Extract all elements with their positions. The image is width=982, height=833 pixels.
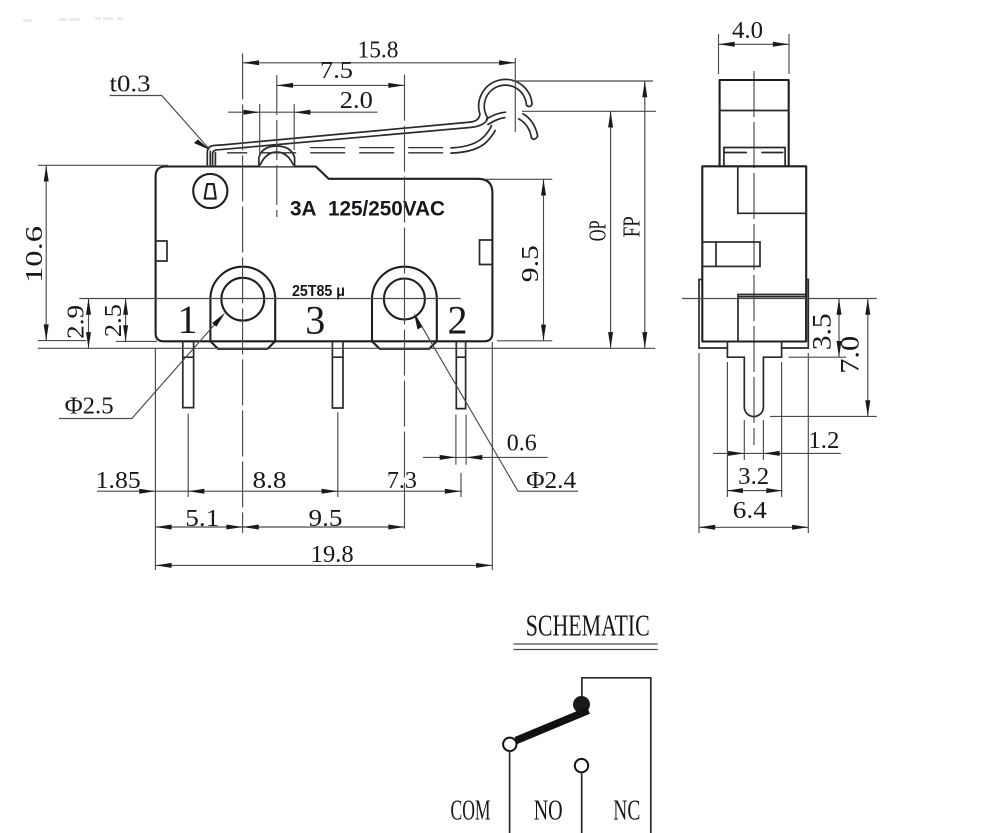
- svg-text:COM: COM: [451, 795, 491, 826]
- side lever inner rect: [724, 148, 785, 167]
- pressed lever S-bend: [451, 126, 492, 148]
- dim 2.9: [63, 299, 91, 349]
- leader t0.3: [110, 72, 211, 151]
- contact dot: [573, 696, 590, 713]
- switch lever: [516, 710, 589, 740]
- OP dim: [522, 111, 656, 348]
- svg-text:8.8: 8.8: [253, 468, 287, 494]
- svg-text:OP: OP: [586, 220, 612, 241]
- svg-text:FP: FP: [620, 216, 646, 237]
- dim 15.8: [243, 38, 516, 66]
- dim row 5.1 / 9.5: [155, 506, 404, 532]
- plunger inner arc: [260, 152, 293, 165]
- svg-text:3.2: 3.2: [738, 464, 769, 490]
- centerline circle1 vertical: [242, 53, 244, 533]
- keyhole trapezoid: [205, 184, 216, 199]
- dim 19.8: [155, 542, 492, 568]
- extension curl tick 15.8 right: [514, 58, 516, 132]
- svg-text:2: 2: [448, 298, 468, 343]
- mounting plane line: [38, 347, 656, 349]
- centerline plunger: [276, 75, 278, 217]
- FP dim: [512, 81, 653, 348]
- svg-text:2.0: 2.0: [340, 88, 373, 114]
- svg-text:7.0: 7.0: [836, 336, 865, 374]
- svg-text:9.5: 9.5: [309, 506, 343, 532]
- dim 2.0: [228, 88, 378, 115]
- body outline: [156, 167, 493, 342]
- dim 0.6: [423, 430, 548, 460]
- wire top: [582, 678, 651, 696]
- dim 6.4: [699, 498, 808, 530]
- dim 9.5 right: [484, 179, 552, 340]
- side bottom extensions: [698, 353, 700, 533]
- svg-text:4.0: 4.0: [732, 18, 763, 44]
- svg-text:10.6: 10.6: [22, 226, 48, 283]
- svg-text:3A 125/250VAC: 3A 125/250VAC: [290, 197, 445, 221]
- side pin shoulder: [727, 342, 781, 417]
- side small left rect: [702, 242, 760, 266]
- curl tip cap: [526, 104, 532, 107]
- side body: [702, 166, 806, 341]
- svg-text:1.2: 1.2: [808, 428, 839, 454]
- svg-text:7.3: 7.3: [387, 468, 417, 494]
- lever upper line with pivot bend and curl outer arc: [207, 79, 532, 166]
- lever lower line with pivot bend and curl inner arc: [213, 85, 527, 166]
- svg-text:7.5: 7.5: [320, 58, 353, 84]
- bottom extension lines: [154, 349, 156, 570]
- wire COM: [509, 751, 511, 833]
- svg-text:9.5: 9.5: [518, 245, 544, 282]
- side body step: [738, 166, 806, 213]
- svg-text:Φ2.4: Φ2.4: [526, 468, 576, 494]
- svg-text:Φ2.5: Φ2.5: [65, 394, 114, 420]
- pin 2: [456, 342, 465, 409]
- svg-text:6.4: 6.4: [733, 498, 767, 524]
- left notch: [156, 241, 167, 261]
- svg-text:3.5: 3.5: [808, 313, 837, 350]
- plunger dome: [259, 146, 295, 166]
- leader phi2.4: [414, 313, 578, 494]
- terminal circle 2: [384, 279, 425, 320]
- svg-text:NO: NO: [534, 795, 563, 826]
- svg-text:1: 1: [178, 297, 198, 342]
- mounting hole circle: [193, 174, 227, 208]
- terminal boss 2: [372, 267, 437, 349]
- faint artifacts top: [23, 17, 123, 22]
- svg-text:3: 3: [305, 298, 325, 343]
- side inner lower rect: [738, 295, 806, 342]
- NO circle: [575, 759, 588, 772]
- dim 3.2: [727, 464, 783, 493]
- hole centerline horizontal: [79, 298, 460, 300]
- centerline circle2 vertical: [404, 75, 406, 533]
- dim 2.5: [101, 299, 157, 342]
- dim 7.5: [277, 58, 405, 88]
- svg-text:2.5: 2.5: [101, 304, 127, 337]
- dim 1.2: [713, 428, 841, 456]
- svg-text:t0.3: t0.3: [110, 72, 151, 98]
- COM circle: [503, 738, 516, 751]
- dim row 1.85 / 8.8 / 7.3: [96, 468, 462, 494]
- extension 2.0 right: [293, 104, 295, 150]
- side flange left: [699, 280, 727, 349]
- side lever block: [720, 80, 789, 166]
- right notch: [480, 240, 493, 265]
- terminal circle 1: [221, 278, 264, 321]
- svg-text:5.1: 5.1: [185, 506, 219, 532]
- svg-text:1.85: 1.85: [96, 468, 141, 494]
- dim 10.6: [22, 165, 168, 340]
- terminal boss 1: [210, 267, 275, 349]
- pin 3: [332, 342, 343, 408]
- svg-text:NC: NC: [613, 795, 640, 826]
- pressed curl left crescent: [487, 112, 506, 119]
- pin 1: [183, 342, 194, 408]
- dim 7.0: [770, 299, 877, 417]
- lever pressed position dashed lines: [240, 147, 248, 149]
- svg-text:2.9: 2.9: [63, 305, 89, 339]
- side centerline: [753, 71, 755, 445]
- pressed curl right piece: [523, 114, 538, 136]
- lever pivot verticals: [209, 152, 211, 167]
- svg-text:0.6: 0.6: [507, 430, 537, 456]
- leader phi2.5: [59, 313, 225, 420]
- extension 2.0 left: [259, 104, 261, 157]
- dim 4.0: [719, 18, 790, 74]
- dim 3.5: [789, 299, 847, 358]
- wire NC: [650, 678, 652, 833]
- svg-text:15.8: 15.8: [358, 38, 399, 64]
- svg-text:SCHEMATIC: SCHEMATIC: [526, 608, 650, 643]
- wire NO: [581, 772, 583, 833]
- side datum horizontal: [682, 298, 877, 300]
- svg-text:19.8: 19.8: [311, 542, 354, 568]
- side flange right: [782, 280, 809, 349]
